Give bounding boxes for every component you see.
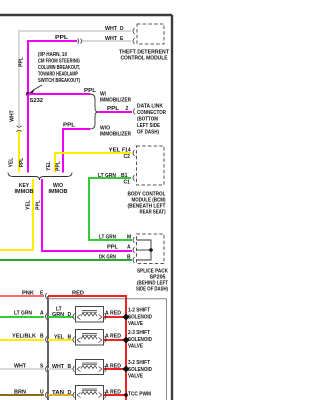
label body control module <box>128 192 166 216</box>
svg-text:SOLENOID: SOLENOID <box>128 367 152 373</box>
merge brace immobilizer options <box>8 173 72 181</box>
svg-text:2: 2 <box>126 106 129 112</box>
wire PPL W/O immob branch <box>63 129 90 173</box>
pin bracket C1 <box>133 175 135 181</box>
page frame top line <box>0 15 172 400</box>
svg-text:B: B <box>127 255 131 261</box>
wire PPL S232 to brace <box>28 93 90 95</box>
svg-text:IMMOB: IMMOB <box>49 189 68 195</box>
svg-text:WHT: WHT <box>105 36 117 42</box>
svg-text:BRN: BRN <box>14 390 26 396</box>
page frame right line <box>171 15 173 400</box>
svg-text:CONTROL MODULE: CONTROL MODULE <box>121 56 169 62</box>
svg-text:3-2 SHIFT: 3-2 SHIFT <box>128 360 150 366</box>
svg-text:RED: RED <box>110 311 121 317</box>
svg-text:C1: C1 <box>124 180 131 186</box>
svg-text:CONNECTOR: CONNECTOR <box>137 110 166 116</box>
wire WHT to pin D (corner at 19,31) <box>19 31 131 126</box>
svg-text:PNK: PNK <box>22 291 34 297</box>
wire RED bus <box>48 296 126 400</box>
svg-text:C2: C2 <box>124 154 131 160</box>
svg-text:WHT: WHT <box>10 110 16 121</box>
svg-text:VALVE: VALVE <box>128 374 144 380</box>
BCM dashed box <box>137 146 165 185</box>
svg-text:PPL: PPL <box>84 88 96 94</box>
svg-text:B: B <box>40 334 44 340</box>
svg-text:B: B <box>68 335 72 341</box>
wire YEL merged pair <box>0 179 33 250</box>
svg-text:F14: F14 <box>122 148 131 154</box>
junction dot row2 <box>122 336 129 343</box>
pin brackets M A B <box>133 237 135 263</box>
svg-text:IMMOBILIZER: IMMOBILIZER <box>100 98 131 104</box>
pin bracket DLC <box>134 109 136 115</box>
svg-text:S232: S232 <box>30 98 44 104</box>
svg-text:RED: RED <box>72 291 84 297</box>
transmission box left edge <box>47 296 49 400</box>
junction dot row3 <box>122 365 129 372</box>
svg-text:DATA LINK: DATA LINK <box>137 104 163 110</box>
wire PPL S232 down to merge brace <box>27 94 29 173</box>
solenoid 1-2 shift <box>76 307 104 323</box>
wire LT GRN BCM B1 <box>89 178 132 240</box>
svg-text:PPL: PPL <box>56 161 62 171</box>
svg-text:A: A <box>127 245 131 251</box>
brace split to immobilizer options <box>90 94 99 129</box>
svg-text:VALVE: VALVE <box>128 344 144 350</box>
junction dot row1 <box>122 313 129 320</box>
row 1: wire LT GRN <box>0 316 44 318</box>
wire RED solenoid 2 <box>104 339 127 341</box>
svg-text:YEL: YEL <box>109 148 121 154</box>
label data link connector <box>137 104 166 136</box>
svg-text:D: D <box>68 390 72 396</box>
transmission box right edge <box>166 299 168 400</box>
svg-text:B: B <box>68 364 72 370</box>
wire DK GRN <box>0 259 132 261</box>
svg-text:PPL: PPL <box>19 57 25 67</box>
svg-text:M: M <box>127 235 131 241</box>
svg-text:PPL: PPL <box>107 106 119 112</box>
splice pack dashed box <box>137 234 165 264</box>
svg-text:PPL: PPL <box>63 123 75 129</box>
svg-text:TOWARD HEADLAMP: TOWARD HEADLAMP <box>38 72 79 78</box>
svg-text:D: D <box>120 26 124 32</box>
svg-text:YEL: YEL <box>46 161 52 171</box>
big box pin brackets left <box>46 293 107 398</box>
svg-text:PPL: PPL <box>55 35 68 41</box>
splice pack internal junction dot <box>149 248 153 252</box>
svg-text:A: A <box>40 311 44 317</box>
svg-text:1-2 SHIFT: 1-2 SHIFT <box>128 308 150 314</box>
harness note text block <box>38 52 80 84</box>
svg-text:YEL/BLK: YEL/BLK <box>12 334 36 340</box>
svg-text:YEL: YEL <box>26 200 32 210</box>
wire TAN inside <box>48 394 73 396</box>
svg-text:PPL: PPL <box>107 245 118 251</box>
row 3: wire WHT <box>0 368 44 370</box>
wire PPL merged pair <box>42 179 132 251</box>
wire RED solenoid 3 <box>104 368 127 370</box>
svg-text:RED: RED <box>110 334 121 340</box>
svg-text:TAN: TAN <box>52 390 64 396</box>
wire LT GRN inside <box>48 316 73 318</box>
wire RED solenoid 1 <box>104 316 127 318</box>
svg-text:SWITCH BREAKOUT): SWITCH BREAKOUT) <box>38 78 80 84</box>
svg-text:U: U <box>40 390 44 396</box>
svg-text:REAR SEAT): REAR SEAT) <box>140 210 166 216</box>
svg-text:LEFT SIDE: LEFT SIDE <box>137 123 161 129</box>
wire YEL below connector <box>18 131 20 173</box>
wire PNK <box>0 295 44 297</box>
svg-text:PPL: PPL <box>36 200 42 210</box>
theft deterrent control module dashed box <box>137 24 164 44</box>
transmission box top edge <box>48 298 167 300</box>
svg-text:LT GRN: LT GRN <box>98 173 116 179</box>
wire YEL from BCM C2 down <box>55 153 131 173</box>
label splice pack SP205 <box>136 269 168 293</box>
svg-text:SOLENOID: SOLENOID <box>128 315 152 321</box>
splice connector on wire E at x79 <box>78 39 82 44</box>
splice pack internal bus <box>137 240 152 260</box>
svg-text:TCC PWM: TCC PWM <box>128 392 151 398</box>
svg-text:GRN: GRN <box>52 312 64 318</box>
svg-text:COLUMN BREAKOUT,: COLUMN BREAKOUT, <box>38 65 80 71</box>
solenoid TCC PWM <box>76 386 104 400</box>
svg-text:B1: B1 <box>121 173 128 179</box>
solenoid 2-3 shift <box>76 330 104 346</box>
solenoid 3-2 shift <box>76 360 104 375</box>
wire WHT segment to pin E after splice <box>82 40 131 42</box>
svg-text:PPL: PPL <box>19 158 25 168</box>
svg-text:WHT: WHT <box>105 26 117 32</box>
svg-text:DK GRN: DK GRN <box>99 255 116 261</box>
svg-text:IMMOBILIZER: IMMOBILIZER <box>100 132 131 138</box>
wire WHT inside <box>48 368 73 370</box>
pin bracket C2 <box>133 150 135 156</box>
svg-text:SOLENOID: SOLENOID <box>128 337 152 343</box>
pin bracket E <box>133 38 135 44</box>
row 4: wire BRN <box>0 394 44 396</box>
svg-text:WHT: WHT <box>14 364 26 370</box>
svg-text:(I/P HARN, 10: (I/P HARN, 10 <box>38 52 67 58</box>
row 2: wire YEL/BLK <box>0 339 44 341</box>
node S232 junction dot <box>26 92 30 96</box>
svg-text:WHT: WHT <box>52 364 64 370</box>
wire PPL to DLC pin 2 <box>99 111 133 113</box>
junction dot row4 <box>124 393 128 397</box>
svg-text:CM FROM STEERING: CM FROM STEERING <box>38 59 80 65</box>
arrow to S232 <box>33 85 43 91</box>
svg-text:YEL: YEL <box>9 158 15 168</box>
svg-text:SIDE OF DASH): SIDE OF DASH) <box>136 287 168 293</box>
svg-text:D: D <box>68 312 72 318</box>
svg-text:VALVE: VALVE <box>128 321 144 327</box>
pin bracket D <box>133 28 135 34</box>
svg-text:IMMOB: IMMOB <box>15 189 34 195</box>
svg-text:OF DASH): OF DASH) <box>137 130 159 136</box>
svg-text:LT GRN: LT GRN <box>14 311 32 317</box>
wire YEL inside <box>48 339 73 341</box>
svg-text:2-3 SHIFT: 2-3 SHIFT <box>128 330 150 336</box>
svg-text:LT GRN: LT GRN <box>99 235 116 241</box>
svg-text:YEL: YEL <box>54 335 64 341</box>
svg-text:(BOTTOM: (BOTTOM <box>137 117 158 123</box>
wire RED solenoid 4 <box>104 394 127 396</box>
splice connector on WHT/YEL wire at (19,128) <box>17 126 22 132</box>
wire PPL from corner (28,41) to splice <box>28 41 77 94</box>
